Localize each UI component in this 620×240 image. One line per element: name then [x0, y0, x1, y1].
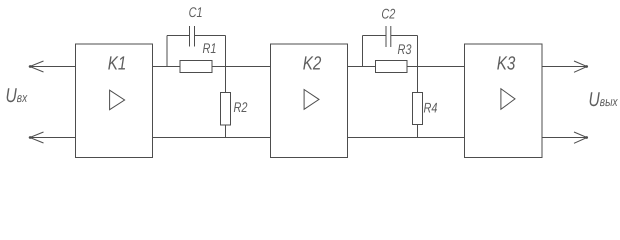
arrow output top [574, 61, 588, 72]
svg-text:K1: K1 [108, 53, 127, 74]
svg-text:K3: K3 [497, 53, 516, 74]
wire output top [542, 66, 587, 68]
arrow input bottom [29, 132, 44, 143]
resistor R1 [180, 61, 212, 73]
svg-text:R4: R4 [424, 100, 438, 116]
wire K1 out to R1 [153, 66, 181, 68]
wire input bottom [30, 137, 76, 139]
amplifier K1 [76, 44, 153, 158]
svg-text:K2: K2 [303, 53, 322, 74]
wire lower rail K2-K3 [348, 137, 465, 139]
arrow input top [29, 61, 44, 72]
resistor R3 [376, 61, 408, 73]
wire R1 to K2 [212, 66, 271, 68]
svg-text:C2: C2 [381, 5, 395, 21]
arrow output bottom [574, 132, 588, 143]
svg-text:R1: R1 [203, 40, 217, 56]
svg-text:R3: R3 [398, 41, 412, 57]
amplifier K3 [465, 44, 543, 158]
wire lower rail K1-K2 [153, 137, 271, 139]
svg-text:C1: C1 [189, 4, 203, 20]
capacitor C2 [363, 26, 418, 67]
capacitor C1 [167, 26, 226, 67]
amplifier K2 [271, 44, 348, 158]
wire output bottom [542, 137, 587, 139]
wire input top [30, 66, 76, 68]
wire K2 out to R3 [348, 66, 376, 68]
wire R3 to K3 [407, 66, 465, 68]
svg-text:R2: R2 [234, 99, 248, 115]
resistor R2 [221, 67, 231, 138]
resistor R4 [413, 67, 423, 138]
